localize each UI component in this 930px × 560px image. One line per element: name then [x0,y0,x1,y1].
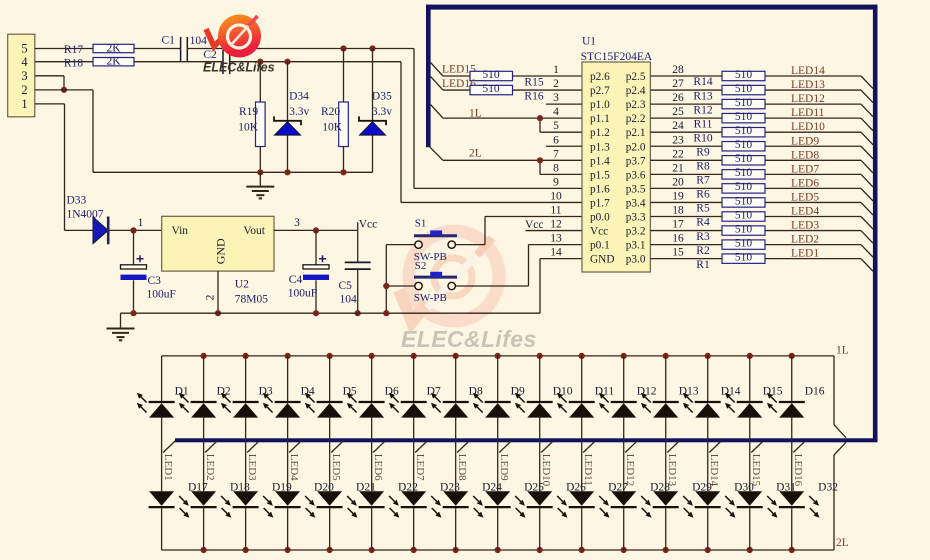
LED D15 [726,356,763,418]
LED D22 [359,491,399,516]
svg-text:LED2: LED2 [791,234,819,246]
wire 1L to pins 4-5 bracket [443,117,540,119]
svg-text:LED1: LED1 [162,454,174,481]
LED D11 [558,356,595,418]
wire D17 to rail [161,508,163,550]
wire D32 to rail [791,508,793,550]
wire gnd rail lower [121,312,541,314]
svg-text:p3.0: p3.0 [626,254,646,266]
svg-text:R5: R5 [696,203,710,215]
svg-text:p3.2: p3.2 [626,226,646,238]
LED D32 [779,491,818,516]
wire pin 3 stub [546,103,582,105]
svg-text:p3.3: p3.3 [626,212,646,224]
svg-text:2L: 2L [836,537,849,549]
ground at lower gnd rail [107,313,135,340]
svg-text:D34: D34 [289,91,309,103]
resistor R12 510 [693,97,765,116]
svg-text:p3.1: p3.1 [626,240,646,252]
wire col 13 vertical [665,418,667,492]
svg-text:100uF: 100uF [288,287,317,299]
svg-text:D13: D13 [679,385,699,397]
wire R18 to C2 [134,61,223,63]
wire S2 right to pin13 [455,285,528,287]
LED D8 [432,356,469,418]
svg-text:LED7: LED7 [791,163,819,175]
wire LED11 bus entry [583,441,595,453]
resistor R8 510 [696,153,765,172]
wire pin 23 to R9 [650,145,722,147]
wire D19 to rail [245,508,247,550]
wire D28 to rail [623,508,625,550]
wire gnd rail upper [93,171,373,173]
svg-text:R8: R8 [696,161,710,173]
node bottom rail col 15 [747,547,753,553]
wire pin3 jog [35,75,64,77]
wire LED12 bus entry [861,104,873,117]
wire R4 to bus [765,216,861,218]
svg-text:R14: R14 [693,76,712,88]
wire R15 to pin1 [513,75,583,77]
wire pin 26 to R12 [650,103,722,105]
svg-text:R13: R13 [693,90,712,102]
node bottom rail col 9 [495,547,501,553]
node D34 top [284,59,290,65]
svg-text:27: 27 [672,78,684,90]
svg-text:LED5: LED5 [330,454,342,481]
resistor R18 2K [64,56,134,70]
LED D29 [653,491,693,516]
wire LED10 bus entry [861,132,873,145]
svg-text:D15: D15 [763,385,783,397]
svg-text:LED3: LED3 [791,220,819,232]
svg-text:p3.7: p3.7 [626,155,646,167]
wire LED10 bus entry [541,441,553,453]
resistor R15 510 [470,69,544,89]
svg-text:2: 2 [553,78,559,90]
svg-text:p1.0: p1.0 [590,99,610,111]
svg-text:19: 19 [672,190,684,202]
wire LED4 bus entry [289,441,301,453]
svg-text:4: 4 [21,55,28,69]
LED D25 [485,491,525,516]
switch S1 SW-PB [414,230,457,248]
svg-text:C5: C5 [339,280,353,292]
svg-text:24: 24 [672,120,684,132]
wire 2L bottom rail [162,549,834,551]
resistor R2 510 [696,237,765,256]
svg-text:9: 9 [553,176,559,188]
svg-text:LED8: LED8 [791,149,819,161]
wire R3 to bus [765,230,861,232]
svg-text:510: 510 [735,195,753,207]
resistor R3 510 [696,223,765,242]
svg-text:78M05: 78M05 [235,294,268,306]
svg-text:LED14: LED14 [791,65,825,77]
svg-text:D14: D14 [721,385,741,397]
wire col 11 vertical [581,418,583,492]
node bottom rail col 16 [789,547,795,553]
svg-text:3.3v: 3.3v [289,106,309,118]
svg-text:p1.6: p1.6 [590,183,610,195]
svg-text:S2: S2 [415,260,427,272]
svg-text:p1.4: p1.4 [590,155,610,167]
LED D9 [474,356,511,418]
wire LED16 bus entry [793,441,805,453]
svg-text:R6: R6 [696,189,710,201]
svg-text:C4: C4 [289,274,303,286]
node top rail col 10 [537,353,543,359]
wire pin 21 to R7 [650,173,722,175]
svg-text:p2.6: p2.6 [590,71,610,83]
svg-text:LED14: LED14 [708,454,720,487]
node top rail col 13 [663,353,669,359]
wire pin 19 to R5 [650,201,722,203]
wire D31 to rail [749,508,751,550]
wire pin 24 to R10 [650,131,722,133]
svg-text:2K: 2K [106,56,121,68]
svg-text:510: 510 [482,69,500,81]
wire LED13 bus entry [667,441,679,453]
resistor R7 510 [696,167,765,186]
node bottom rail col 6 [369,547,375,553]
connector J1 (5-pin header) [8,34,35,117]
node top rail col 4 [285,353,291,359]
wire LED6 bus entry [373,441,385,453]
LED D3 [222,356,259,418]
svg-text:3: 3 [21,69,27,83]
LED D6 [348,356,385,418]
wire pin5 to R17 [35,48,93,50]
wire D33 to U2 Vin [110,229,162,231]
resistor R19 10K [238,62,265,173]
svg-text:p1.7: p1.7 [590,197,610,209]
zener diode D34 3.3v [274,62,309,173]
wire LED14 bus entry [861,76,873,89]
wire col 10 vertical [539,418,541,492]
svg-text:21: 21 [672,162,684,174]
LED D21 [317,491,357,516]
svg-text:R7: R7 [696,175,710,187]
ground at gnd rail [246,172,274,198]
wire col 9 vertical [497,418,499,492]
wire LED14 bus entry [709,441,721,453]
svg-text:p3.5: p3.5 [626,183,646,195]
resistor R1 510 [696,251,765,270]
node top rail col 14 [705,353,711,359]
svg-text:p2.2: p2.2 [626,113,646,125]
wire D25 to rail [497,508,499,550]
LED D17 [149,491,189,516]
svg-text:510: 510 [482,83,500,95]
svg-text:LED6: LED6 [372,454,384,481]
node S2 left junction [383,283,389,289]
svg-text:510: 510 [735,139,753,151]
node D35 top [369,45,375,51]
svg-text:D12: D12 [637,385,657,397]
svg-text:p1.1: p1.1 [590,113,610,125]
svg-text:510: 510 [735,153,753,165]
svg-text:4: 4 [553,106,559,118]
wire R9 to bus [765,145,861,147]
svg-text:D10: D10 [553,385,573,397]
svg-text:LED13: LED13 [666,454,678,487]
svg-text:510: 510 [735,97,753,109]
wire LED11 bus entry [861,118,873,131]
svg-text:p0.0: p0.0 [590,212,610,224]
wire pin 16 to R2 [650,244,722,246]
wire LED13 bus entry [861,90,873,103]
svg-text:LED4: LED4 [791,206,819,218]
node C4 bottom [313,310,319,316]
svg-text:STC15F204EA: STC15F204EA [581,51,653,63]
LED D24 [443,491,483,516]
wire D30 to rail [707,508,709,550]
svg-text:20: 20 [672,176,684,188]
capacitor C2 104 [203,49,229,74]
svg-text:R18: R18 [64,58,83,70]
svg-text:p2.0: p2.0 [626,141,646,153]
wire net p1.7 vertical [400,62,402,203]
node buttons-gnd junction [383,310,389,316]
LED D2 [180,356,217,418]
node R20 bottom [340,169,346,175]
svg-text:100uF: 100uF [147,289,176,301]
resistor R17 2K [64,42,134,56]
svg-text:ELEC&Lifes: ELEC&Lifes [401,326,537,352]
node bottom rail col 14 [705,547,711,553]
wire pin4 to R18 [35,61,93,63]
node C5 bottom [355,310,361,316]
wire pin 27 to R13 [650,89,722,91]
wire col 14 vertical [707,418,709,492]
wire U2 pin2 to gnd rail [217,271,219,313]
wire 1L bus entry [431,105,443,119]
LED D18 [191,491,231,516]
node R20 top [340,45,346,51]
svg-text:p2.5: p2.5 [626,71,646,83]
wire R13 to bus [765,89,861,91]
LED D1 [138,356,175,418]
svg-text:23: 23 [672,134,684,146]
svg-text:2L: 2L [469,148,482,160]
resistor R16 510 [470,83,544,103]
node bottom rail col 8 [453,547,459,553]
svg-text:p3.6: p3.6 [626,169,646,181]
svg-text:1L: 1L [836,344,849,356]
wire 2L to pins 7-8 bracket [443,159,540,161]
resistor R5 510 [696,195,765,214]
node top rail col 3 [243,353,249,359]
wire D22 to rail [371,508,373,550]
svg-text:D11: D11 [595,385,615,397]
svg-text:14: 14 [550,247,562,259]
wire pin 25 to R11 [650,117,722,119]
capacitor C1 104 [162,35,208,62]
node C4 tap [313,227,319,233]
svg-text:C3: C3 [148,275,162,287]
svg-text:28: 28 [672,64,684,76]
node top rail col 5 [327,353,333,359]
svg-text:7: 7 [553,148,559,160]
svg-text:LED13: LED13 [791,79,825,91]
wire LED7 bus entry [861,174,873,187]
capacitor C4 100uF [288,230,329,313]
svg-text:1: 1 [138,217,144,229]
wire LED16 bus entry [431,77,443,90]
LED D19 [233,491,273,516]
wire R7 to bus [765,173,861,175]
wire R5 to bus [765,201,861,203]
svg-text:R9: R9 [696,146,710,158]
LED D13 [642,356,679,418]
wire R6 to bus [765,187,861,189]
wire col 6 vertical [371,418,373,492]
LED D20 [275,491,315,516]
wire LED5 bus entry [861,202,873,215]
svg-text:10K: 10K [322,122,343,134]
op-amp U2 78M05 regulator [162,216,274,305]
svg-text:D35: D35 [372,91,392,103]
svg-text:LED5: LED5 [791,191,819,203]
svg-text:510: 510 [735,125,753,137]
wire R11 to bus [765,117,861,119]
wire R2 to bus [765,244,861,246]
svg-text:17: 17 [672,219,684,231]
wire D23 to rail [413,508,415,550]
bus: LED array horizontal [175,438,878,442]
wire col 3 vertical [245,418,247,492]
svg-text:LED15: LED15 [750,454,762,487]
wire D27 to rail [581,508,583,550]
node top rail col 6 [369,353,375,359]
svg-text:5: 5 [21,42,27,56]
wire col 12 vertical [623,418,625,492]
wire LED8 bus entry [457,441,469,453]
svg-text:R19: R19 [239,106,258,118]
node bottom rail col 4 [285,547,291,553]
wire LED2 bus entry [205,441,217,453]
svg-text:104: 104 [340,293,358,305]
svg-text:p2.4: p2.4 [626,85,646,97]
svg-text:15: 15 [672,247,684,259]
svg-text:p2.1: p2.1 [626,127,646,139]
LED D7 [390,356,427,418]
wire 1L top rail [162,355,834,357]
svg-text:510: 510 [735,251,753,263]
svg-text:LED10: LED10 [540,454,552,487]
node bottom rail col 5 [327,547,333,553]
svg-text:R17: R17 [64,44,83,56]
node C3 bottom [130,310,136,316]
resistor R13 510 [693,83,765,102]
svg-text:LED10: LED10 [791,121,825,133]
svg-text:11: 11 [550,205,561,217]
svg-text:LED12: LED12 [624,454,636,486]
node bottom rail col 12 [621,547,627,553]
wire LED2 bus entry [861,245,873,258]
wire pin1 down to D33 [35,103,65,105]
svg-text:10K: 10K [238,122,258,134]
wire net p1.6 vertical [413,49,415,189]
svg-text:U2: U2 [235,279,249,291]
node top rail col 9 [495,353,501,359]
wire col 5 vertical [329,418,331,492]
wire col 1 vertical [161,418,163,492]
svg-text:3: 3 [553,92,559,104]
svg-text:LED8: LED8 [456,454,468,481]
svg-text:R16: R16 [524,90,543,102]
svg-text:1N4007: 1N4007 [67,209,104,221]
svg-text:510: 510 [735,111,753,123]
svg-text:p2.3: p2.3 [626,99,646,111]
node bottom rail col 7 [411,547,417,553]
node top rail col 7 [411,353,417,359]
svg-text:p1.5: p1.5 [590,169,610,181]
svg-text:3.3v: 3.3v [372,106,392,118]
LED D5 [306,356,343,418]
svg-text:R4: R4 [696,217,710,229]
node D34 bottom [284,169,290,175]
zener diode D35 3.3v [359,49,392,173]
node R19 bottom [257,169,263,175]
resistor R4 510 [696,209,765,228]
node top rail col 8 [453,353,459,359]
svg-text:5: 5 [553,120,559,132]
wire D29 to rail [665,508,667,550]
svg-text:510: 510 [735,83,753,95]
node top rail col 12 [621,353,627,359]
wire S1 right to pin11 [455,244,485,246]
chip U1 STC15F204EA [581,36,653,273]
svg-text:LED9: LED9 [498,454,510,481]
svg-text:SW-PB: SW-PB [414,292,447,304]
svg-text:2: 2 [204,294,216,300]
wire LED9 bus entry [499,441,511,453]
svg-text:22: 22 [672,148,684,160]
svg-text:p3.4: p3.4 [626,197,646,209]
wire pin 22 to R8 [650,159,722,161]
svg-text:18: 18 [672,205,684,217]
svg-text:510: 510 [735,181,753,193]
svg-text:ELEC&Lifes: ELEC&Lifes [203,60,275,74]
wire LED9 bus entry [861,146,873,159]
wire LED1 bus entry [861,259,873,272]
svg-text:R3: R3 [696,231,710,243]
node 2L bracket [537,157,543,163]
svg-text:p2.7: p2.7 [590,85,610,97]
wire D26 to rail [539,508,541,550]
LED D27 [569,491,609,516]
wire LED3 bus entry [861,231,873,244]
svg-text:2K: 2K [106,42,121,54]
wire R16 to pin2 [513,89,583,91]
svg-text:510: 510 [735,69,753,81]
svg-text:10: 10 [550,190,562,202]
svg-text:R20: R20 [321,106,340,118]
svg-text:U1: U1 [582,36,596,48]
wire LED4 bus entry [861,217,873,230]
wire buttons common to gnd [385,245,387,314]
svg-text:16: 16 [672,233,684,245]
svg-text:GND: GND [590,254,614,266]
svg-text:R12: R12 [693,104,712,116]
node U2 pin2 [215,310,221,316]
node bottom rail col 13 [663,547,669,553]
wire R14 to bus [765,75,861,77]
node top rail col 2 [201,353,207,359]
wire pin 28 to R14 [650,75,722,77]
